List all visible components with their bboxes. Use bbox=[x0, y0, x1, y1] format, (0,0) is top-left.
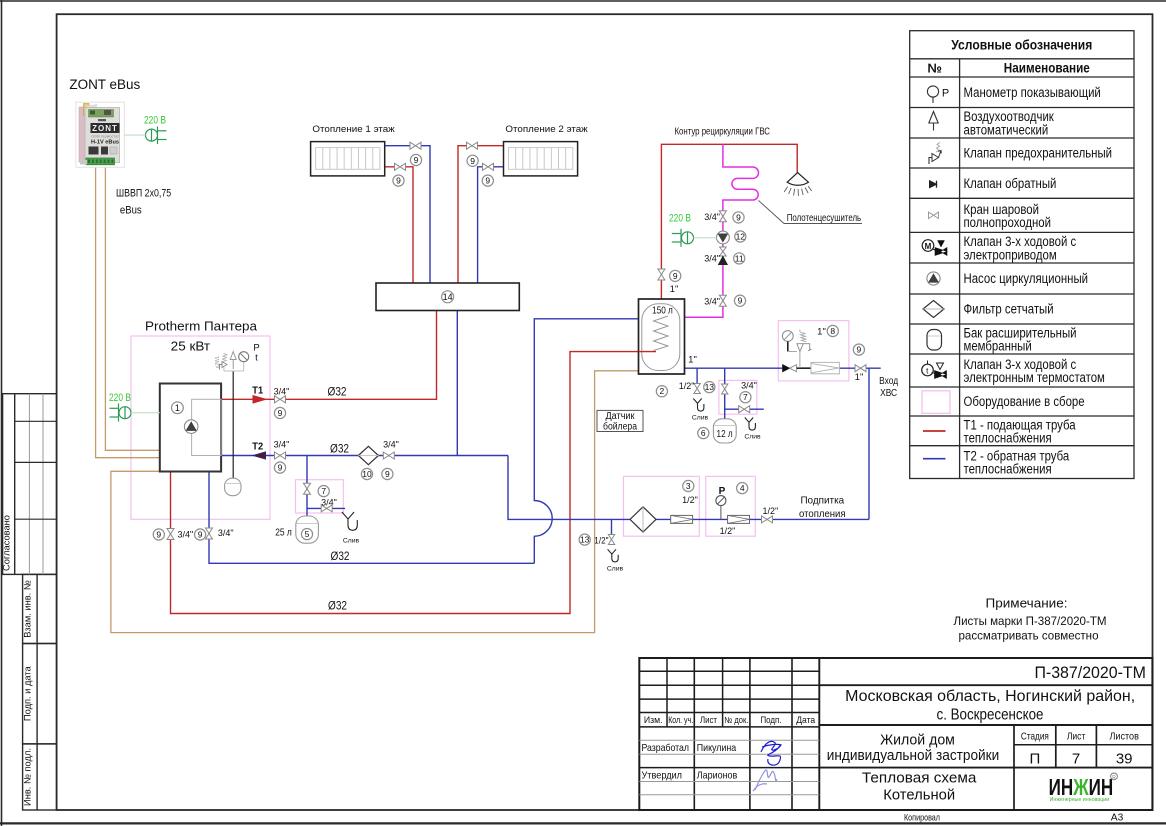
svg-text:220 В: 220 В bbox=[144, 114, 166, 126]
svg-text:7: 7 bbox=[743, 392, 748, 402]
svg-text:12 л: 12 л bbox=[717, 429, 733, 440]
svg-text:3/4": 3/4" bbox=[178, 530, 194, 540]
svg-text:Стадия: Стадия bbox=[1021, 732, 1049, 743]
svg-text:4: 4 bbox=[740, 483, 745, 493]
svg-text:индивидуальной застройки: индивидуальной застройки bbox=[827, 748, 1000, 764]
svg-text:1/2": 1/2" bbox=[594, 536, 608, 546]
svg-text:1": 1" bbox=[688, 355, 697, 366]
svg-text:Р: Р bbox=[942, 88, 949, 100]
svg-text:автоматический: автоматический bbox=[964, 122, 1049, 137]
svg-text:Условные обозначения: Условные обозначения bbox=[951, 38, 1092, 53]
svg-text:Вход: Вход bbox=[879, 376, 898, 387]
svg-text:25 кВт: 25 кВт bbox=[171, 339, 210, 354]
svg-text:12: 12 bbox=[736, 232, 746, 242]
svg-text:7: 7 bbox=[1072, 751, 1080, 768]
svg-text:Листов: Листов bbox=[1109, 732, 1139, 743]
svg-text:2: 2 bbox=[660, 386, 665, 396]
svg-text:Датчик: Датчик bbox=[606, 411, 636, 422]
svg-text:1: 1 bbox=[175, 403, 180, 413]
svg-text:9: 9 bbox=[278, 408, 283, 418]
svg-text:Согласовано: Согласовано bbox=[2, 515, 12, 571]
svg-text:1/2": 1/2" bbox=[720, 526, 736, 536]
svg-text:Отопление 2 этаж: Отопление 2 этаж bbox=[505, 124, 588, 135]
svg-text:П-387/2020-ТМ: П-387/2020-ТМ bbox=[1034, 664, 1146, 682]
svg-text:9: 9 bbox=[673, 271, 678, 281]
svg-text:с. Воскресенское: с. Воскресенское bbox=[937, 706, 1044, 723]
svg-text:теплоснабжения: теплоснабжения bbox=[964, 462, 1052, 477]
svg-text:Кол. уч.: Кол. уч. bbox=[668, 715, 693, 725]
svg-text:Дата: Дата bbox=[796, 715, 815, 725]
svg-text:10: 10 bbox=[362, 469, 372, 479]
svg-text:Слив: Слив bbox=[692, 415, 709, 422]
svg-text:eBus: eBus bbox=[120, 205, 142, 217]
svg-text:9: 9 bbox=[414, 155, 419, 165]
svg-text:А3: А3 bbox=[1111, 812, 1124, 824]
svg-text:T1: T1 bbox=[252, 385, 263, 396]
svg-text:9: 9 bbox=[470, 156, 475, 166]
svg-text:220 В: 220 В bbox=[109, 392, 131, 404]
svg-text:Листы марки П-387/2020-ТМ: Листы марки П-387/2020-ТМ bbox=[954, 614, 1107, 628]
svg-text:М: М bbox=[925, 242, 932, 251]
svg-text:Полотенцесушитель: Полотенцесушитель bbox=[787, 213, 861, 224]
svg-text:Ларионов: Ларионов bbox=[697, 770, 738, 781]
svg-text:Контур рециркуляции ГВС: Контур рециркуляции ГВС bbox=[674, 126, 770, 137]
svg-text:Изм.: Изм. bbox=[644, 715, 663, 725]
svg-text:мембранный: мембранный bbox=[964, 339, 1032, 354]
svg-text:9: 9 bbox=[278, 463, 283, 473]
svg-text:ε2WL: ε2WL bbox=[215, 355, 221, 368]
svg-text:Ø32: Ø32 bbox=[330, 441, 349, 455]
svg-text:3: 3 bbox=[686, 481, 691, 491]
svg-text:3/4": 3/4" bbox=[704, 296, 720, 306]
svg-text:Ø32: Ø32 bbox=[331, 549, 350, 563]
svg-text:11: 11 bbox=[735, 253, 744, 263]
svg-text:H-1V eBus: H-1V eBus bbox=[91, 140, 119, 146]
svg-text:Фильтр сетчатый: Фильтр сетчатый bbox=[964, 302, 1054, 317]
svg-text:Лист: Лист bbox=[700, 715, 717, 725]
svg-text:Жилой дом: Жилой дом bbox=[880, 732, 955, 748]
svg-text:5: 5 bbox=[305, 529, 310, 539]
svg-text:6: 6 bbox=[701, 428, 706, 438]
svg-text:39: 39 bbox=[1116, 751, 1133, 768]
svg-text:9: 9 bbox=[736, 212, 741, 222]
svg-text:Ø32: Ø32 bbox=[328, 599, 347, 613]
svg-text:Инв. № подл.: Инв. № подл. bbox=[23, 748, 33, 806]
svg-text:1": 1" bbox=[855, 372, 864, 383]
svg-text:теплоснабжения: теплоснабжения bbox=[964, 430, 1052, 445]
svg-text:220 В: 220 В bbox=[669, 213, 691, 225]
svg-text:№: № bbox=[927, 61, 942, 76]
svg-text:Пикулина: Пикулина bbox=[697, 743, 737, 754]
svg-text:GSM термостат: GSM термостат bbox=[91, 135, 119, 139]
svg-text:Ø32: Ø32 bbox=[328, 385, 347, 399]
svg-text:9: 9 bbox=[198, 530, 203, 540]
svg-text:R: R bbox=[1112, 775, 1116, 781]
svg-text:8: 8 bbox=[830, 326, 835, 336]
svg-text:Тепловая схема: Тепловая схема bbox=[862, 770, 977, 787]
svg-text:П: П bbox=[1030, 751, 1041, 768]
svg-text:Московская область, Ногинский: Московская область, Ногинский район, bbox=[845, 688, 1135, 705]
svg-text:Подп.: Подп. bbox=[761, 715, 782, 725]
svg-text:Слив: Слив bbox=[744, 434, 761, 441]
svg-text:Лист: Лист bbox=[1067, 732, 1086, 743]
svg-text:бойлера: бойлера bbox=[603, 422, 637, 433]
svg-text:9: 9 bbox=[485, 176, 490, 186]
svg-text:t: t bbox=[255, 353, 258, 364]
svg-text:3/4": 3/4" bbox=[704, 212, 720, 222]
svg-text:9: 9 bbox=[385, 469, 390, 479]
svg-text:3/4": 3/4" bbox=[704, 254, 720, 264]
svg-text:Protherm Пантера: Protherm Пантера bbox=[145, 319, 258, 334]
svg-text:Копировал: Копировал bbox=[904, 813, 940, 824]
svg-text:Утвердил: Утвердил bbox=[642, 770, 683, 781]
svg-text:Инженерные инновации: Инженерные инновации bbox=[1050, 797, 1110, 803]
svg-text:рассматривать совместно: рассматривать совместно bbox=[959, 629, 1099, 643]
svg-text:ZONT: ZONT bbox=[92, 124, 118, 133]
svg-text:Примечание:: Примечание: bbox=[986, 596, 1068, 611]
svg-text:9: 9 bbox=[396, 176, 401, 186]
svg-text:ШВВП 2x0,75: ШВВП 2x0,75 bbox=[116, 188, 171, 200]
svg-text:электронным термостатом: электронным термостатом bbox=[964, 370, 1105, 385]
svg-text:Слив: Слив bbox=[343, 538, 360, 545]
svg-text:Клапан обратный: Клапан обратный bbox=[964, 176, 1057, 191]
svg-text:Слив: Слив bbox=[607, 566, 624, 573]
svg-text:9: 9 bbox=[857, 345, 862, 355]
svg-text:9: 9 bbox=[156, 530, 161, 540]
svg-text:Насос циркуляционный: Насос циркуляционный bbox=[964, 271, 1089, 286]
svg-text:отопления: отопления bbox=[799, 509, 846, 520]
svg-text:1/2'': 1/2'' bbox=[763, 506, 779, 516]
svg-text:1": 1" bbox=[817, 327, 826, 338]
svg-text:Взам. инв. №: Взам. инв. № bbox=[23, 580, 33, 638]
svg-text:3/4": 3/4" bbox=[741, 381, 757, 391]
svg-text:№ док.: № док. bbox=[724, 715, 748, 725]
svg-text:Котельной: Котельной bbox=[883, 787, 955, 804]
svg-text:ZONT eBus: ZONT eBus bbox=[69, 77, 140, 92]
svg-text:1/2": 1/2" bbox=[679, 381, 695, 391]
svg-text:Разработал: Разработал bbox=[642, 742, 690, 754]
svg-text:Подп. и дата: Подп. и дата bbox=[23, 665, 33, 721]
svg-text:Оборудование в сборе: Оборудование в сборе bbox=[964, 394, 1085, 409]
svg-text:Наименование: Наименование bbox=[1004, 61, 1090, 76]
svg-text:14: 14 bbox=[443, 292, 453, 302]
svg-text:3/4": 3/4" bbox=[274, 439, 290, 449]
svg-text:ХВС: ХВС bbox=[880, 388, 897, 399]
svg-text:150 л: 150 л bbox=[652, 306, 673, 317]
svg-text:3/4": 3/4" bbox=[218, 528, 234, 538]
svg-text:13: 13 bbox=[580, 535, 590, 545]
svg-text:Подпитка: Подпитка bbox=[800, 496, 844, 507]
svg-text:7: 7 bbox=[321, 486, 326, 496]
svg-text:1": 1" bbox=[670, 284, 679, 295]
svg-text:Р: Р bbox=[719, 486, 726, 497]
svg-text:Отопление 1 этаж: Отопление 1 этаж bbox=[312, 124, 395, 135]
svg-text:полнопроходной: полнопроходной bbox=[964, 215, 1052, 230]
svg-text:Манометр показывающий: Манометр показывающий bbox=[964, 85, 1101, 100]
svg-text:T2: T2 bbox=[252, 441, 263, 452]
svg-text:3/4": 3/4" bbox=[383, 439, 399, 449]
svg-text:электроприводом: электроприводом bbox=[964, 247, 1057, 262]
svg-text:1/2": 1/2" bbox=[682, 495, 698, 505]
svg-text:Клапан предохранительный: Клапан предохранительный bbox=[964, 146, 1113, 161]
svg-text:25 л: 25 л bbox=[275, 528, 292, 539]
svg-text:9: 9 bbox=[738, 296, 743, 306]
svg-text:13: 13 bbox=[705, 382, 715, 392]
svg-text:3/4": 3/4" bbox=[274, 387, 290, 397]
